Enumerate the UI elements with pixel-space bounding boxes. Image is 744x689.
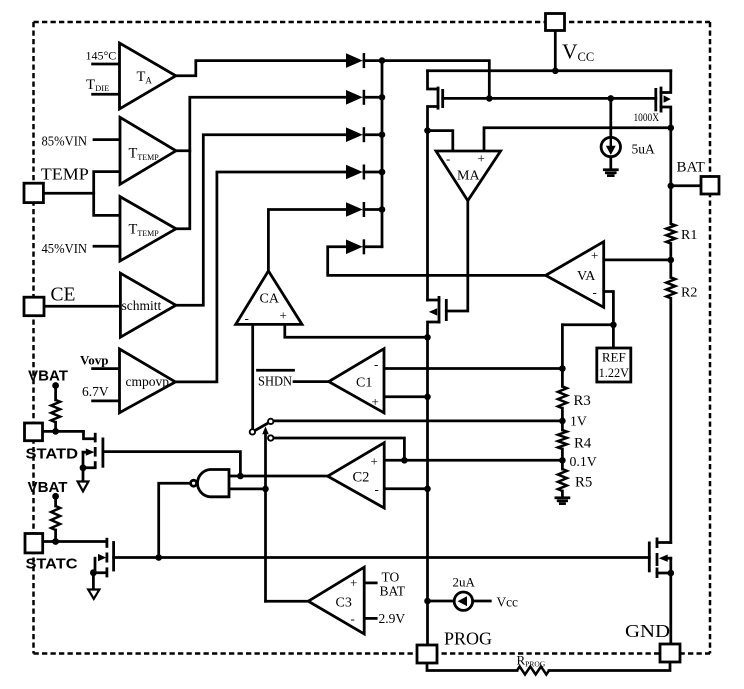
svg-text:MA: MA (457, 169, 480, 184)
wire 0.1V line / C2+ (384, 459, 562, 462)
wire C3- stub (364, 617, 376, 620)
diode D1 (346, 53, 363, 68)
wire PMOS M1 drain down (428, 107, 439, 301)
wire NAND input1 up to STATD gate line (103, 452, 241, 476)
transistor M2 (below MA) channel and gate (438, 296, 441, 324)
current source 2uA (454, 592, 472, 610)
svg-text:schmitt: schmitt (122, 298, 162, 313)
svg-text:R3: R3 (574, 393, 591, 409)
pin GND (660, 644, 680, 662)
node VBAT STATC (52, 493, 59, 500)
node 1000X source / MA+ (668, 125, 675, 132)
svg-text:1000X: 1000X (634, 110, 660, 124)
wire NAND input2 (229, 488, 266, 491)
wire MA+ sense line (484, 128, 671, 151)
transistor Q2 channel segments (106, 538, 109, 548)
wire M2 drain stub (428, 299, 440, 302)
svg-text:1V: 1V (570, 414, 587, 429)
svg-text:-: - (351, 611, 355, 626)
wire C2 output to NAND input1 (229, 475, 328, 478)
wire C1- to REF/R3 node (384, 367, 562, 370)
wire VBAT resistor leads STATC (54, 496, 57, 506)
node C2- tap (424, 486, 431, 493)
diode D6 (346, 240, 363, 255)
comparator C1 (329, 349, 384, 413)
node Q1 source (80, 464, 87, 471)
node CA+ tap (424, 334, 431, 341)
wire switch blade (255, 423, 269, 431)
transistor 1000X channel and gate (654, 88, 657, 111)
wire TTEMP2 input 45%VIN (94, 245, 120, 248)
SHDN overline (258, 369, 294, 372)
wire VA- to REF node (604, 292, 614, 325)
svg-text:BAT: BAT (380, 584, 406, 599)
pin PROG (417, 645, 437, 663)
schmitt trigger (120, 273, 175, 337)
node VA-/REF (610, 322, 617, 329)
svg-text:C2: C2 (353, 470, 370, 486)
node NAND in2 (262, 486, 269, 493)
svg-text:BAT: BAT (677, 160, 705, 176)
pin VCC (546, 14, 565, 31)
wire GND NMOS source to GND pin (657, 572, 671, 575)
wire cmpovp input Vovp (93, 367, 120, 370)
svg-text:+: + (371, 454, 378, 469)
NAND gate G1 (mirrored) (197, 470, 229, 497)
resistor R1 (666, 224, 675, 244)
comparator cmpovp (120, 349, 176, 413)
transistor Q3 channel segments (656, 538, 659, 549)
amplifier CA (236, 271, 302, 325)
wire cmpovp output to diode D4 (175, 172, 346, 382)
transistor Q1 (STATD) gate bar (102, 438, 105, 468)
svg-text:R5: R5 (575, 474, 592, 490)
wire Q2 source to ground (93, 573, 105, 590)
wire 1000X drain from VCC (661, 71, 671, 93)
wire VCC pin drop (554, 31, 557, 71)
svg-text:VBAT: VBAT (28, 479, 68, 496)
resistor R3 (558, 386, 567, 408)
wire C1+ tap (384, 395, 428, 398)
arrow of Q2 (98, 554, 106, 561)
wire cmpovp input 6.7V (93, 400, 120, 403)
wire TEMP pin branch (44, 192, 94, 195)
diode D2 (346, 90, 363, 105)
resistor R2 (666, 277, 675, 298)
svg-text:-: - (446, 151, 450, 166)
node C2+/switch (401, 457, 408, 464)
pin STATC (25, 534, 43, 553)
svg-text:145°C: 145°C (86, 49, 117, 63)
node VBAT STATD (52, 382, 59, 389)
node NAND out / gate line (155, 554, 162, 561)
diode D3 (346, 127, 363, 142)
svg-text:cmpovp: cmpovp (126, 374, 170, 389)
comparator TA (120, 43, 176, 109)
ground bars 5uA (604, 168, 617, 171)
wire schmitt output to diode D3 (176, 135, 346, 306)
node NAND in1 (237, 473, 244, 480)
REF 1.22V box (597, 348, 631, 382)
svg-text:85%VIN: 85%VIN (42, 134, 88, 149)
svg-text:C3: C3 (336, 596, 352, 611)
wire REF drop (612, 325, 615, 348)
wire VCC rail (428, 69, 671, 72)
svg-text:STATD: STATD (26, 445, 79, 462)
svg-text:R4: R4 (574, 435, 592, 451)
wire C2- tap (384, 487, 427, 490)
wire CE pin to schmitt (44, 305, 120, 308)
wire C3+ stub (364, 582, 376, 585)
svg-text:+: + (478, 151, 485, 166)
svg-text:2uA: 2uA (453, 575, 476, 590)
svg-text:-: - (245, 311, 249, 326)
wire VBAT resistor leads STATD (54, 386, 57, 400)
node VA+ divider tap (668, 257, 675, 264)
svg-text:5uA: 5uA (632, 142, 656, 157)
amplifier MA (436, 151, 501, 201)
arrow of Q1 (86, 448, 95, 455)
wire 1V line to switch upper contact (274, 420, 563, 423)
diode D4 (346, 165, 363, 180)
wire PMOS M1 source from VCC (428, 71, 439, 89)
svg-text:-: - (593, 285, 597, 300)
transistor Q1 channel segments (94, 433, 97, 443)
wire switch actuator / C3 output vertical (264, 432, 267, 602)
arrow of switch actuator (262, 426, 269, 434)
wire R chain segments (561, 408, 564, 430)
wire TA output to diode D1 (176, 61, 346, 76)
wire MA output to M2 gate (446, 201, 468, 311)
switch pole contact (250, 429, 255, 434)
wire 5uA drop (609, 98, 612, 137)
resistor R4 (558, 430, 567, 449)
node Q3 source (668, 570, 675, 577)
svg-text:+: + (350, 575, 357, 590)
current source 5uA (601, 137, 620, 156)
diode cathode bars (363, 53, 366, 68)
wire diode summing bus (381, 61, 384, 247)
wire TTEMP1 input 85%VIN (94, 138, 120, 141)
svg-text:+: + (372, 394, 379, 409)
svg-text:Vovp: Vovp (80, 353, 108, 368)
wire C3 output (266, 600, 309, 603)
svg-text:45%VIN: 45%VIN (42, 241, 88, 256)
wire TTEMP outputs to diode D2 (176, 149, 190, 152)
svg-text:VA: VA (577, 269, 596, 284)
wire 1000X source to BAT node (661, 107, 671, 224)
arrow of 2uA source (458, 596, 467, 606)
wire R2 bottom to GND NMOS drain (669, 298, 672, 542)
comparator C2 (328, 443, 385, 508)
svg-text:SHDN: SHDN (258, 373, 292, 388)
wire STATD pin to Q1 drain (43, 431, 95, 438)
resistor RPROG (517, 667, 549, 675)
svg-text:-: - (375, 482, 379, 497)
comparator TTEMP1 (120, 117, 176, 184)
svg-text:TEMP: TEMP (41, 164, 89, 183)
transistor M1 (top-left PMOS) channel and gate (437, 87, 440, 110)
wire CA+ input (285, 324, 428, 337)
node 0.1V (559, 457, 566, 464)
wire 2uA to main line (428, 600, 455, 603)
comparator C3 (308, 567, 364, 634)
svg-text:TO: TO (382, 570, 400, 585)
wire bottom gate line STATC to GND NMOS (114, 556, 650, 559)
node 2uA tap (424, 598, 431, 605)
arrow of Q3 (659, 555, 668, 562)
svg-text:-: - (374, 357, 378, 372)
arrow of 1000X (664, 95, 671, 102)
wire VA+ to R1/R2 node (604, 259, 671, 262)
transistor Q2 (STATC) gate bar (112, 541, 115, 571)
svg-text:1.22V: 1.22V (599, 366, 630, 380)
wire TA input TDIE (93, 93, 120, 96)
svg-text:Vcc: Vcc (497, 595, 519, 610)
node C1-/R3 top (559, 365, 566, 372)
ground chevron Q2 (88, 590, 99, 599)
svg-text:CA: CA (260, 292, 280, 307)
svg-text:VBAT: VBAT (28, 368, 68, 385)
wire SHDN to C1 (294, 380, 329, 383)
node MA- tap (424, 127, 431, 134)
wire MA- line (428, 131, 453, 151)
wire CA output to diode D5 (268, 210, 346, 271)
node VCC rail tap (552, 68, 559, 75)
diode D5 (346, 202, 363, 217)
transistor Q3 (GND NMOS) gate bar (648, 542, 651, 573)
svg-text:CE: CE (51, 285, 76, 306)
amplifier VA (546, 242, 604, 308)
ground chevron Q1 (78, 482, 89, 492)
resistor VBAT pull-up (STATD) (51, 400, 60, 422)
svg-text:R1: R1 (681, 228, 697, 243)
pin CE (24, 297, 44, 316)
arrow of M2 (429, 308, 437, 315)
wire switch lower contact line (274, 438, 405, 460)
ground bars R5 (556, 496, 569, 499)
svg-text:0.1V: 0.1V (570, 454, 597, 469)
resistor VBAT pull-up (STATC) (51, 506, 60, 530)
arrow stem of 5uA (610, 139, 612, 148)
wire NAND output down (159, 483, 191, 557)
node gate line taps (486, 95, 493, 102)
svg-text:+: + (280, 308, 287, 323)
switch lower contact (0.1V) (268, 435, 273, 440)
svg-text:C1: C1 (356, 376, 372, 391)
node Q2 source (90, 569, 97, 576)
wire STATC pin to Q2 drain (43, 540, 106, 543)
pin BAT (701, 177, 719, 195)
node C1+ tap (424, 394, 431, 401)
svg-text:PROG: PROG (444, 629, 492, 649)
wire PROG to GND via RPROG (427, 663, 517, 671)
svg-text:R2: R2 (681, 286, 697, 301)
pin STATD (25, 423, 43, 441)
wire BAT node to BAT pin (671, 184, 701, 187)
svg-text:GND: GND (625, 621, 670, 641)
wire gate line M1 to 1000X (443, 97, 656, 100)
wire CA- input to switch pole (251, 324, 254, 429)
wire R1 to R2 lead (669, 244, 672, 278)
svg-text:+: + (591, 248, 598, 263)
wire TA input 145C (93, 63, 120, 66)
switch upper contact (1V) (268, 419, 273, 424)
resistor R5 (558, 469, 567, 491)
node BAT (668, 183, 675, 190)
svg-text:REF: REF (602, 350, 626, 365)
wire M2 source stub (428, 322, 440, 645)
wire diode cathode stubs (364, 59, 382, 62)
svg-text:6.7V: 6.7V (82, 384, 109, 399)
node 1V (559, 418, 566, 425)
svg-text:STATC: STATC (26, 556, 78, 573)
wire bus top to gate node (382, 61, 489, 99)
svg-text:2.9V: 2.9V (379, 611, 406, 626)
node diode bus junctions (379, 57, 386, 64)
comparator TTEMP2 (120, 197, 176, 261)
arrow of 5uA source (606, 146, 616, 155)
pin TEMP (24, 183, 43, 202)
wire VA output to diode D6 (328, 247, 546, 276)
wire Q1 source to ground (83, 468, 95, 482)
